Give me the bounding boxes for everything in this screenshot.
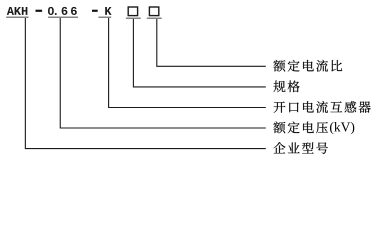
separator dash 1 [36,10,43,12]
label latin part "(kV)" [330,122,354,134]
wire from box2 to label "额定电流比" [157,19,266,66]
underline under K [98,17,111,19]
spec placeholder box 1 [128,7,137,16]
spec placeholder box 2 [149,7,158,16]
wire from box1 to label "规格" [133,19,265,87]
wire from K to label "开口电流互感器" [109,18,266,108]
model code text "K" (open-type marker) [105,7,111,15]
wire from 0.66 to label "额定电压(kV)" [60,18,266,128]
underline under 0.66 [48,17,78,19]
label "额定电流比" [273,60,342,72]
label "规格" [273,81,299,93]
label "额定电压(kV)" [273,122,328,134]
underline under AKH [6,17,28,19]
model code text "AKH" [7,7,28,15]
underline under box2 [147,18,162,20]
model code text "0.66" (rated voltage) [48,7,77,15]
underline under box1 [126,18,141,20]
separator dash 2 [92,10,98,12]
label "企业型号" [273,142,327,154]
label "开口电流互感器" [274,101,371,113]
wire from AKH to label "企业型号" [25,18,265,149]
